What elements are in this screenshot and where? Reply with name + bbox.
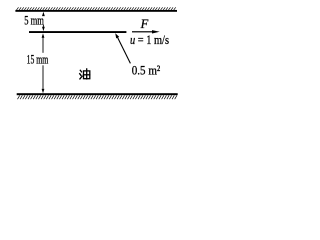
svg-text:F: F [140, 17, 149, 31]
bottom wall line [17, 93, 178, 95]
oil character 油 [80, 69, 90, 79]
svg-text:15 mm: 15 mm [27, 51, 49, 66]
leader arrowhead at plate [115, 33, 119, 38]
dimension 15mm lower arrowhead [42, 89, 45, 93]
svg-text:u = 1 m/s: u = 1 m/s [130, 33, 169, 47]
dimension 15mm lower stub [42, 65, 45, 90]
dimension 15mm upper arrowhead [42, 33, 45, 37]
plate line [29, 31, 126, 33]
dimension 5mm upper arrowhead [42, 12, 45, 16]
dimension 5mm stub [42, 25, 45, 27]
top wall line [15, 10, 177, 12]
svg-text:5 mm: 5 mm [24, 13, 44, 28]
dimension 5mm lower arrowhead [42, 27, 45, 31]
bottom wall hatching [18, 95, 177, 99]
dimension 15mm upper stub [42, 37, 45, 53]
leader line [117, 37, 130, 64]
top wall hatching [16, 7, 175, 10]
svg-text:0.5 m²: 0.5 m² [132, 62, 160, 77]
force F arrow [132, 31, 153, 32]
